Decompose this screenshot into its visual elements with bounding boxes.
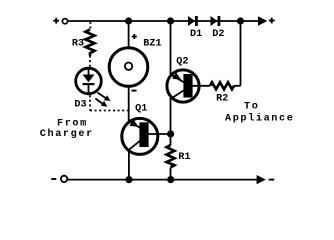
wire dotted horizontal to Q1 emitter node <box>90 110 128 112</box>
transistor Q1 (PNP) <box>122 118 168 154</box>
svg-text:BZ1: BZ1 <box>143 38 161 49</box>
wire top rail <box>68 20 258 22</box>
wire dotted R3 branch top <box>89 22 91 30</box>
label To Appliance <box>225 101 294 124</box>
terminal circle (charger + input) <box>62 19 67 24</box>
svg-text:Q1: Q1 <box>135 104 147 115</box>
terminal circle (charger - input) <box>61 176 67 182</box>
transistor Q2 (PNP) <box>167 70 210 102</box>
svg-text:R2: R2 <box>216 93 228 104</box>
resistor R1 <box>167 145 175 168</box>
wire Q1 collector to bottom rail <box>128 150 130 180</box>
wire dotted D3 down <box>89 95 91 110</box>
LED D3 <box>76 68 102 94</box>
svg-text:Appliance: Appliance <box>225 113 294 125</box>
wire BZ1 top lead <box>128 21 130 47</box>
junction node R1 / rail <box>167 176 174 183</box>
svg-text:Charger: Charger <box>40 128 94 140</box>
svg-text:D2: D2 <box>212 29 224 40</box>
wire top rail to Q2 emitter <box>170 21 172 75</box>
arrow output - <box>257 175 266 184</box>
diode D2 <box>211 16 221 26</box>
wire R1 bottom lead <box>170 168 172 180</box>
wire BZ1 bottom to Q1 emitter <box>128 88 130 122</box>
svg-text:To: To <box>244 101 259 112</box>
junction node output rail <box>237 17 244 24</box>
resistor R3 <box>86 30 95 56</box>
LED D3 light arrow 2 <box>95 98 107 106</box>
arrow output + <box>258 16 267 25</box>
junction node BZ1 top <box>125 17 132 24</box>
LED D3 light arrow 1 <box>98 93 111 101</box>
label output - <box>269 179 275 181</box>
diode D1 <box>188 16 198 26</box>
svg-text:Q2: Q2 <box>176 57 188 68</box>
wire dotted R3 to D3 <box>89 56 91 68</box>
terminal plus label (charger +) <box>53 18 59 24</box>
wire R1 top lead <box>170 134 172 145</box>
buzzer BZ1 <box>109 48 148 87</box>
svg-text:D3: D3 <box>74 99 86 110</box>
label BZ1 plus <box>132 34 137 39</box>
label From Charger <box>40 119 94 140</box>
label BZ1 minus <box>132 90 137 92</box>
wire R2 to output node <box>234 21 241 86</box>
terminal minus label (charger -) <box>51 178 56 180</box>
wire Q2 collector down <box>170 98 172 134</box>
label output + <box>269 18 275 24</box>
junction node Q1 collector / rail <box>125 176 132 183</box>
junction node Q1 base / Q2 collector / R1 <box>167 130 174 137</box>
svg-text:D1: D1 <box>190 29 202 40</box>
resistor R2 <box>210 82 234 89</box>
svg-text:R3: R3 <box>72 38 84 49</box>
wire bottom rail <box>68 179 258 181</box>
junction node Q2 emitter rail <box>167 17 174 24</box>
svg-text:R1: R1 <box>178 152 190 163</box>
